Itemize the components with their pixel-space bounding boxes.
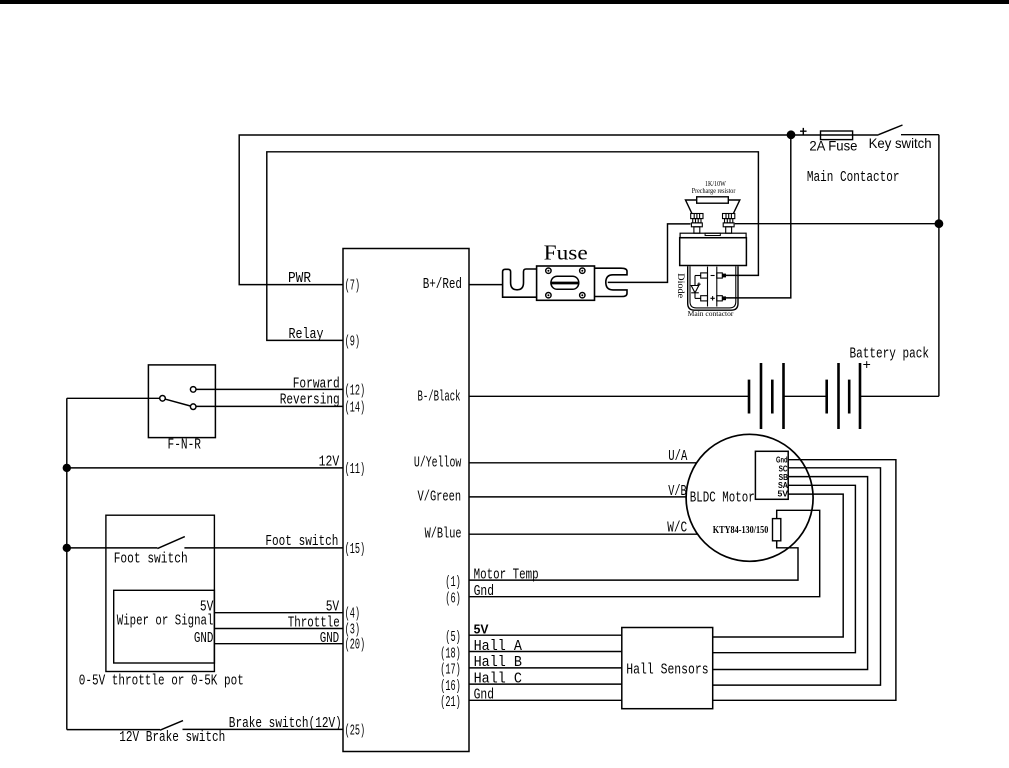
svg-text:Battery pack: Battery pack bbox=[850, 345, 930, 362]
svg-text:F-N-R: F-N-R bbox=[168, 437, 202, 454]
svg-text:W/Blue: W/Blue bbox=[425, 526, 462, 543]
svg-text:+: + bbox=[863, 356, 871, 372]
wire Gnd (pin 6 to KTY top) bbox=[469, 510, 820, 596]
contactor K1 coil terminal minus bbox=[701, 273, 726, 278]
wire fuse output to contactor terminal 1 bbox=[608, 224, 691, 283]
wire brake switch right (to pin 25) bbox=[183, 728, 344, 730]
svg-text:12V Brake switch: 12V Brake switch bbox=[119, 729, 225, 746]
node junction key line / PWR bbox=[787, 130, 796, 139]
wire precharge resistor left lead bbox=[686, 200, 697, 214]
switch S3 brake switch blade bbox=[160, 721, 183, 731]
svg-text:2A Fuse: 2A Fuse bbox=[809, 138, 857, 154]
wire hall A to connector SA pin bbox=[713, 485, 856, 652]
contactor K1 coil terminal plus bbox=[701, 296, 726, 301]
contactor K1 top plate bbox=[680, 233, 746, 238]
svg-text:(12): (12) bbox=[345, 382, 366, 399]
wire key switch line down to battery + bbox=[938, 135, 940, 397]
fuse F1 screw bottom-left bbox=[546, 293, 551, 298]
svg-text:B+/Red: B+/Red bbox=[423, 276, 462, 293]
svg-text:W/C: W/C bbox=[667, 519, 687, 536]
sensor KTY84 body bbox=[773, 519, 781, 541]
svg-text:Hall Sensors: Hall Sensors bbox=[626, 661, 708, 678]
controller U1 box bbox=[343, 249, 469, 752]
node junction battery positive bbox=[935, 219, 944, 228]
fuse F1 body bbox=[537, 266, 595, 300]
wire Hall C (pin 16 to hall box) bbox=[469, 683, 622, 685]
wire hall 5V to connector 5V pin bbox=[713, 494, 844, 637]
wire Hall B (pin 17 to hall box) bbox=[469, 667, 622, 669]
svg-text:Hall B: Hall B bbox=[474, 654, 522, 671]
contactor K1 terminal bolt 2 bbox=[723, 214, 735, 234]
svg-text:Gnd: Gnd bbox=[776, 456, 788, 465]
battery pack cells bbox=[749, 363, 860, 429]
wire hall Gnd to connector Gnd pin bbox=[713, 460, 896, 701]
wire PWR loop (pin 7 to key line) bbox=[239, 135, 878, 285]
wire Reversing (F-N-R to pin 14) bbox=[196, 405, 343, 407]
switch S2 foot switch blade bbox=[157, 537, 184, 549]
svg-text:Fuse: Fuse bbox=[544, 241, 588, 265]
fuse F1 left fork terminal bbox=[503, 269, 537, 297]
svg-text:(20): (20) bbox=[345, 637, 366, 654]
svg-text:5V: 5V bbox=[326, 599, 340, 616]
svg-text:B-/Black: B-/Black bbox=[418, 389, 461, 406]
wire Motor Temp (pin 1 to KTY bottom) bbox=[469, 541, 798, 580]
wire 5V (pin 5 to hall box) bbox=[469, 634, 622, 636]
fuse F1 screw top-left bbox=[546, 268, 551, 273]
wire left 12V bus vertical bbox=[66, 398, 68, 729]
svg-text:KTY84-130/150: KTY84-130/150 bbox=[713, 524, 769, 536]
node junction 12V bus bbox=[63, 464, 71, 472]
wire Relay loop (pin 9 to contactor coil -) bbox=[267, 152, 759, 341]
svg-text:Hall C: Hall C bbox=[474, 670, 522, 687]
svg-text:Throttle: Throttle bbox=[288, 614, 340, 631]
svg-text:(11): (11) bbox=[345, 461, 366, 478]
wire hall B to connector SB pin bbox=[713, 477, 868, 670]
svg-text:Gnd: Gnd bbox=[474, 583, 494, 600]
contactor K1 center column bbox=[708, 267, 717, 307]
svg-text:Foot switch: Foot switch bbox=[114, 551, 188, 568]
wire Throttle (pin 3) bbox=[214, 628, 343, 630]
svg-text:Main Contactor: Main Contactor bbox=[807, 169, 900, 186]
svg-text:Gnd: Gnd bbox=[474, 687, 494, 704]
wire U/Yellow to motor bbox=[469, 462, 696, 464]
wire B+/Red (pin to fuse) bbox=[469, 284, 503, 286]
svg-text:5V: 5V bbox=[778, 490, 789, 499]
wire brake switch left bbox=[67, 729, 160, 731]
throttle box (Wiper or Signal) bbox=[114, 590, 215, 663]
svg-text:Key switch: Key switch bbox=[869, 135, 932, 151]
fuse F1 screw bottom-right bbox=[580, 293, 585, 298]
svg-text:U/Yellow: U/Yellow bbox=[414, 454, 461, 471]
top border bar bbox=[0, 0, 1009, 4]
svg-text:Motor Temp: Motor Temp bbox=[474, 566, 539, 583]
switch S1 F-N-R box bbox=[148, 365, 215, 438]
wire Gnd (pin 21 to hall box) bbox=[469, 699, 622, 701]
contactor K1 terminal bolt 1 bbox=[691, 214, 703, 234]
wire foot switch right (to pin 15) bbox=[184, 547, 343, 549]
svg-text:GND: GND bbox=[320, 630, 340, 647]
svg-text:Main contactor: Main contactor bbox=[688, 310, 734, 318]
foot switch enclosure box bbox=[106, 515, 214, 671]
wire battery inter-cell link bbox=[784, 395, 827, 397]
contactor K1 coil housing bbox=[688, 266, 738, 310]
wire 12V (bus to pin 11) bbox=[67, 467, 343, 469]
wire GND (throttle to pin 20) bbox=[214, 643, 343, 645]
svg-text:(25): (25) bbox=[345, 722, 366, 739]
svg-text:(6): (6) bbox=[445, 591, 461, 608]
svg-text:(15): (15) bbox=[345, 541, 366, 558]
svg-text:(9): (9) bbox=[345, 333, 361, 350]
wire coil + feed (junction down to coil) bbox=[726, 135, 791, 298]
fuse F1 element capsule bbox=[550, 276, 579, 289]
svg-text:U/A: U/A bbox=[668, 448, 687, 465]
svg-text:(17): (17) bbox=[440, 662, 461, 679]
svg-text:(18): (18) bbox=[440, 645, 461, 662]
svg-text:Diode: Diode bbox=[676, 273, 686, 298]
wire V/Green to motor bbox=[469, 496, 686, 498]
svg-text:PWR: PWR bbox=[288, 270, 311, 287]
resistor precharge 1K/10W body bbox=[697, 197, 729, 203]
wire battery positive to key line bbox=[860, 395, 939, 397]
svg-text:Precharge resistor: Precharge resistor bbox=[692, 187, 736, 195]
wire contactor terminal 2 to battery positive junction bbox=[735, 223, 939, 225]
wire 5V (throttle to pin 4) bbox=[214, 612, 343, 614]
wire F-N-R pole to left bus bbox=[67, 397, 160, 399]
wire B-/Black (pin to battery negative) bbox=[469, 395, 749, 397]
hall sensors box bbox=[622, 628, 713, 709]
svg-text:BLDC Motor: BLDC Motor bbox=[690, 490, 755, 507]
svg-text:(5): (5) bbox=[445, 629, 461, 646]
svg-text:(21): (21) bbox=[440, 694, 461, 711]
svg-text:Foot switch: Foot switch bbox=[265, 533, 338, 550]
wire hall C to connector SC pin bbox=[713, 468, 881, 685]
svg-text:(7): (7) bbox=[345, 278, 361, 295]
svg-text:Forward: Forward bbox=[293, 376, 340, 393]
svg-text:0-5V throttle or 0-5K pot: 0-5V throttle or 0-5K pot bbox=[79, 672, 244, 689]
fuse F1 right fork terminal bbox=[595, 268, 628, 296]
wire precharge resistor right lead bbox=[728, 200, 740, 214]
switch key switch blade bbox=[879, 125, 903, 135]
wire key switch to down corner bbox=[901, 134, 939, 136]
svg-text:Wiper or Signal: Wiper or Signal bbox=[117, 613, 214, 630]
svg-text:Reversing: Reversing bbox=[280, 391, 340, 408]
svg-text:V/Green: V/Green bbox=[418, 488, 462, 505]
wire Hall A (pin 18 to hall box) bbox=[469, 651, 622, 653]
contactor K1 main body bbox=[680, 238, 747, 266]
fuse F2 2A fuse body bbox=[821, 131, 853, 140]
svg-text:GND: GND bbox=[194, 630, 214, 647]
svg-text:V/B: V/B bbox=[668, 483, 686, 500]
svg-text:12V: 12V bbox=[319, 454, 340, 471]
svg-text:Brake switch(12V): Brake switch(12V) bbox=[229, 715, 342, 732]
svg-text:+: + bbox=[800, 123, 808, 138]
svg-text:(1): (1) bbox=[445, 574, 461, 591]
svg-text:Relay: Relay bbox=[289, 326, 324, 343]
svg-text:Hall A: Hall A bbox=[474, 638, 522, 655]
motor connector box bbox=[755, 451, 788, 499]
wire foot switch left bbox=[67, 547, 158, 549]
node junction foot switch bus bbox=[63, 544, 71, 552]
wire Forward (F-N-R to pin 12) bbox=[196, 388, 343, 390]
svg-text:(16): (16) bbox=[440, 678, 461, 695]
svg-text:5V: 5V bbox=[474, 622, 489, 637]
motor M1 BLDC circle bbox=[686, 434, 813, 561]
wire W/Blue to motor bbox=[469, 533, 697, 535]
diode D1 across coil bbox=[691, 276, 701, 299]
svg-text:(4): (4) bbox=[345, 606, 361, 623]
fuse F1 screw top-right bbox=[580, 268, 585, 273]
svg-text:(14): (14) bbox=[345, 399, 366, 416]
